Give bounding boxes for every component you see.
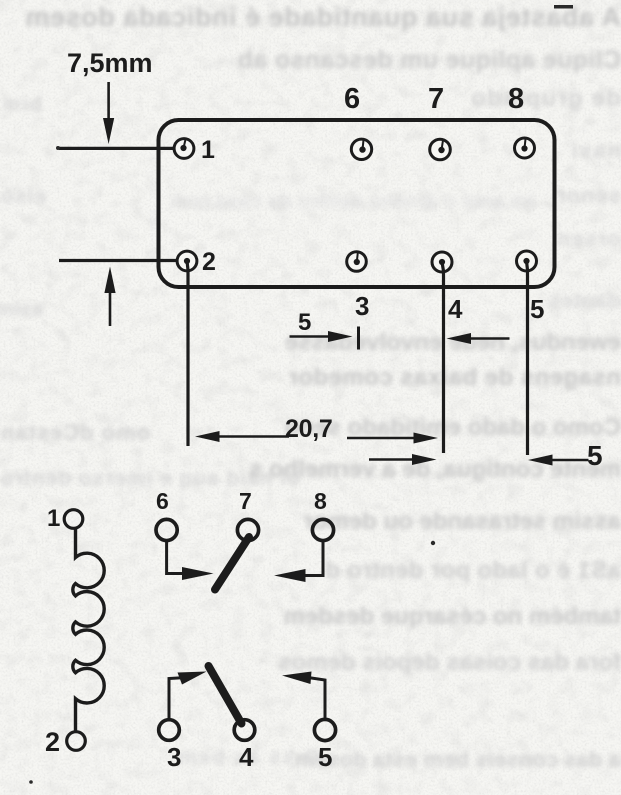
- dimension arrow right toward pin 4 line (4-5 gap): [369, 454, 437, 465]
- svg-text:4: 4: [239, 742, 254, 772]
- svg-text:20,7: 20,7: [285, 415, 332, 443]
- wire: contact 3 arm with arrow: [169, 672, 207, 721]
- svg-text:7: 7: [239, 488, 252, 514]
- pin 6 index tick: [363, 140, 364, 150]
- contact 4 terminal circle: [234, 720, 255, 741]
- dimension arrow left toward pin 2 line (20,7): [195, 431, 289, 442]
- wire: contact 6 arm with arrow: [167, 541, 214, 581]
- pin 5 center dot: [523, 258, 529, 264]
- contact 8 terminal circle: [312, 519, 333, 540]
- wire: dimension extension line pin 2: [59, 259, 179, 262]
- wire: pin 5 lead line: [526, 261, 529, 455]
- dimension arrow down (7,5mm upper): [103, 82, 114, 144]
- wire: pin 4 lead through circle: [442, 262, 444, 271]
- svg-text:5: 5: [318, 742, 332, 772]
- pin 6 center dot: [359, 146, 365, 152]
- pin 1 center dot: [180, 145, 186, 151]
- pin 8: [515, 138, 535, 158]
- pin 4 center dot: [439, 259, 445, 265]
- coil terminal 2 circle: [67, 732, 86, 751]
- pin 7 center dot: [438, 147, 444, 153]
- pin 2 center dot: [184, 258, 190, 264]
- switch lever (common 4): [209, 666, 242, 724]
- svg-text:3: 3: [167, 742, 181, 772]
- coil L (relay coil): [73, 529, 104, 733]
- svg-text:7: 7: [428, 83, 444, 115]
- pin 7 index tick: [442, 140, 444, 150]
- wire: contact 8 arm with arrow: [274, 541, 323, 583]
- coil terminal 1 circle: [64, 510, 83, 529]
- dimension arrow left toward pin 4 line: [447, 333, 510, 344]
- wire: pin 2 lead line: [186, 261, 189, 446]
- svg-text:7,5mm: 7,5mm: [67, 48, 153, 78]
- pin 4: [432, 252, 452, 272]
- wire: dimension extension line pin 1: [59, 147, 177, 150]
- svg-text:5: 5: [530, 294, 544, 324]
- wire: contact 5 arm with arrow: [282, 672, 325, 720]
- pin 2: [177, 251, 197, 271]
- pin 1 index tick: [184, 140, 186, 149]
- pin 3 center dot: [354, 259, 360, 265]
- pin 6: [351, 139, 371, 159]
- svg-text:5: 5: [587, 440, 603, 471]
- relay body outline: [159, 120, 555, 287]
- wire: pin 2 lead through circle: [187, 261, 188, 270]
- svg-text:3: 3: [355, 291, 369, 321]
- wire: pin 5 lead through circle: [527, 261, 528, 270]
- svg-text:8: 8: [314, 488, 327, 514]
- pin 1: [174, 139, 194, 159]
- pin 7: [430, 139, 451, 160]
- svg-text:4: 4: [448, 294, 463, 324]
- node: pin 3 dimension tick: [357, 327, 360, 350]
- bleed-through mirrored text rows: [25, 4, 621, 31]
- dimension arrow right toward pin 4 line (20,7): [347, 433, 438, 444]
- dimension arrow left toward pin 5 line (4-5 gap): [528, 455, 589, 466]
- switch lever (common 7): [215, 537, 249, 590]
- svg-text:5: 5: [298, 309, 311, 336]
- dimension arrow up (7,5mm lower): [104, 267, 115, 327]
- contact 7 terminal circle: [237, 519, 258, 540]
- pin 8 center dot: [521, 145, 527, 151]
- contact 6 terminal circle: [156, 519, 177, 540]
- pin 5: [517, 251, 537, 271]
- svg-text:2: 2: [45, 727, 60, 757]
- wire: pin 4 lead line: [442, 262, 445, 453]
- pin 3: [347, 252, 367, 272]
- svg-text:1: 1: [201, 136, 215, 164]
- svg-text:2: 2: [202, 248, 216, 276]
- contact 3 terminal circle: [159, 720, 180, 741]
- pin 3 index tick: [357, 253, 358, 262]
- contact 5 terminal circle: [314, 719, 335, 740]
- svg-text:8: 8: [508, 83, 524, 115]
- svg-text:1: 1: [47, 505, 60, 532]
- dimension arrow right toward pin 3 tick: [290, 331, 353, 342]
- pin 8 index tick: [525, 139, 526, 149]
- svg-text:6: 6: [344, 83, 360, 115]
- svg-text:6: 6: [156, 488, 169, 514]
